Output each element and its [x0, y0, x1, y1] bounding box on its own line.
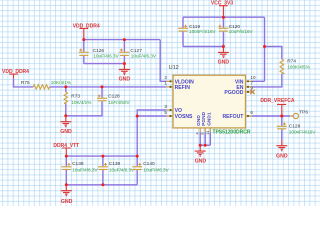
pin 7 EN stub — [246, 86, 253, 88]
wire C119 top lead — [182, 17, 184, 28]
svg-text:10uF/4/6.3V: 10uF/4/6.3V — [131, 54, 157, 59]
wire R75 to REFIN pin 1 — [50, 86, 167, 88]
svg-text:REFOUT: REFOUT — [222, 114, 244, 120]
pin 11 GND1 stub — [209, 128, 211, 132]
svg-text:100nF/4/16V: 100nF/4/16V — [189, 29, 216, 34]
wire bottom pins rail to GND — [200, 144, 210, 146]
svg-text:PGND: PGND — [201, 111, 207, 125]
ground port (C129) — [276, 140, 288, 160]
svg-text:GND1: GND1 — [206, 112, 212, 126]
ground port (C126/C127) — [119, 64, 131, 83]
wire C120 top lead — [222, 17, 224, 28]
wire C138 top lead — [65, 156, 67, 166]
no-connect X on pin 9 PGOOD — [250, 90, 254, 94]
wire PGND pin 8 down — [204, 132, 206, 145]
svg-text:REFIN: REFIN — [175, 85, 191, 91]
node bottom pins / GND — [199, 144, 202, 147]
svg-text:VOSNS: VOSNS — [175, 114, 193, 120]
ground port (U12 bottom pins) — [195, 145, 207, 164]
node VDD_DDR4 / C126 — [82, 38, 85, 41]
svg-text:GND: GND — [218, 59, 230, 65]
svg-text:9: 9 — [250, 86, 253, 91]
pin 3 VO stub — [166, 109, 173, 111]
capacitor C119 — [178, 24, 216, 34]
wire REFOUT pin 6 to TP6 — [252, 115, 290, 117]
svg-text:10K/4/1%: 10K/4/1% — [71, 100, 91, 105]
wire GND pin 4 down — [199, 132, 201, 145]
node VTT rail / C138 — [65, 155, 68, 158]
wire VO/VOSNS down to VTT rail — [136, 116, 138, 156]
pin 4 GND stub — [199, 128, 201, 132]
capacitor C129 — [277, 123, 316, 135]
power port VCC_3V3 — [211, 1, 233, 18]
pin end dots — [169, 80, 249, 117]
svg-text:U12: U12 — [169, 65, 179, 71]
wire VO pin 3 elbow down — [137, 110, 166, 116]
capacitor C126 — [79, 48, 120, 59]
wire C128 bottom lead elbow to GND node — [66, 102, 102, 116]
resistor R74 — [280, 58, 310, 73]
node C120 bottom / GND — [222, 45, 225, 48]
ground port (R73/C128) — [60, 116, 72, 135]
U12 pin numbers — [164, 75, 256, 135]
wire rail elbow to VLDOIN pin 2 — [160, 40, 166, 82]
svg-text:1: 1 — [164, 81, 167, 86]
node VTT rail / C139 — [101, 155, 104, 158]
svg-text:DDR4_VTT: DDR4_VTT — [53, 143, 79, 149]
wire VCC_3V3 top rail — [183, 16, 265, 18]
pin 9 PGOOD stub — [246, 91, 253, 93]
node REFOUT / DDR_VREFCA / C129 — [280, 115, 283, 118]
capacitor C120 — [218, 24, 253, 34]
capacitor C127 — [119, 48, 157, 59]
svg-text:100nF/4/16V: 100nF/4/16V — [289, 129, 316, 134]
svg-text:GND: GND — [61, 199, 73, 205]
svg-text:C128: C128 — [108, 93, 120, 99]
svg-text:R75: R75 — [21, 80, 30, 86]
svg-text:PGOOD: PGOOD — [224, 90, 243, 96]
wire GND1 pin 11 down — [209, 132, 211, 145]
node VTT bottom rail / C139 — [101, 183, 104, 186]
node REFIN rail / R73 — [64, 85, 67, 88]
svg-text:10K/4/1%: 10K/4/1% — [51, 80, 71, 85]
pin 5 VOSNS stub — [166, 115, 173, 117]
capacitor C138 — [61, 161, 98, 173]
pin 10 VIN stub — [246, 80, 253, 82]
wire C129 bottom lead to GND — [281, 129, 283, 140]
pin 1 REFIN stub — [166, 86, 173, 88]
wire C139 top lead — [102, 156, 104, 166]
wire C129 top lead — [281, 116, 283, 126]
wire DDR4_VTT top rail — [66, 155, 137, 157]
op-amp U12 TPS51200DRCR body — [173, 75, 246, 128]
svg-text:VCC_3V3: VCC_3V3 — [211, 1, 233, 7]
power port VDD_DDR4 (left) — [2, 69, 29, 78]
svg-text:R73: R73 — [71, 93, 80, 99]
svg-text:1nF/4/50V: 1nF/4/50V — [108, 100, 130, 105]
svg-text:GND: GND — [119, 77, 131, 83]
power port DDR4_VTT — [53, 143, 79, 156]
wire C127 bottom lead — [123, 56, 125, 64]
svg-text:GND: GND — [276, 153, 288, 159]
svg-text:10uF/4/6.3V: 10uF/4/6.3V — [143, 168, 169, 173]
resistor R73 — [64, 92, 91, 105]
wire C119 bottom lead — [182, 32, 184, 47]
wire VDD_DDR4 top rail — [84, 39, 160, 41]
wire VIN pin to rail — [252, 80, 265, 82]
svg-text:3: 3 — [164, 104, 167, 109]
wire C126 top lead — [83, 40, 85, 52]
svg-text:10uF/4/6.3V: 10uF/4/6.3V — [109, 168, 135, 173]
node VTT bottom rail / GND — [65, 183, 68, 186]
wire C127 top lead — [123, 40, 125, 52]
svg-text:100K/4/5%: 100K/4/5% — [287, 64, 310, 69]
capacitor C139 — [98, 161, 135, 173]
svg-text:10uF/6/16V: 10uF/6/16V — [229, 29, 254, 34]
node R73 bottom / GND — [64, 114, 67, 117]
node VO/VOSNS junction — [136, 115, 139, 118]
svg-text:10: 10 — [250, 75, 256, 80]
wire C138 bottom lead — [65, 170, 67, 185]
wire branch 3V3 to R74 top — [265, 47, 282, 60]
node rail / C127 — [123, 38, 126, 41]
svg-text:VDD_DDR4: VDD_DDR4 — [73, 23, 100, 29]
pin 6 REFOUT stub — [246, 115, 253, 117]
wire VOSNS pin 5 — [137, 115, 166, 117]
wire VCC_3V3 right vertical to VIN — [264, 17, 266, 81]
svg-text:GND: GND — [195, 159, 207, 165]
svg-text:6: 6 — [250, 110, 253, 115]
wire C139 bottom lead — [102, 170, 104, 185]
wire R74 bottom to EN pin — [252, 74, 282, 87]
node REFIN rail / C128 — [101, 85, 104, 88]
node C127 bottom / GND — [123, 62, 126, 65]
capacitor C128 — [97, 93, 130, 105]
capacitor C140 — [132, 161, 169, 173]
ground port (VTT caps) — [61, 185, 73, 205]
node VCC_3V3 / C120 top — [222, 16, 225, 19]
wire C120 bottom lead — [222, 32, 224, 47]
node VTT rail / C140 — [136, 155, 139, 158]
svg-text:TP6: TP6 — [299, 110, 308, 116]
wire VTT caps bottom rail to GND — [66, 184, 137, 186]
svg-text:GND: GND — [60, 129, 72, 135]
pin 8 PGND stub — [204, 128, 206, 132]
wire C128 top lead — [101, 87, 103, 98]
resistor R75 — [21, 80, 71, 89]
svg-text:10uF/4/6.3V: 10uF/4/6.3V — [93, 54, 119, 59]
svg-text:2: 2 — [164, 75, 167, 80]
wire C140 bottom lead — [136, 170, 138, 185]
pin 2 VLDOIN stub — [166, 80, 173, 82]
wire R73 top lead — [65, 87, 67, 92]
svg-text:C139: C139 — [109, 161, 121, 167]
wire 3V3 caps bottom rail to GND — [183, 46, 223, 48]
U12 pin names — [175, 79, 245, 126]
wire R73 bottom lead to GND node — [65, 103, 67, 116]
svg-text:5: 5 — [164, 110, 167, 115]
ground port (3V3 caps) — [218, 47, 230, 66]
svg-text:C140: C140 — [143, 161, 155, 167]
svg-text:10uF/4/6.3V: 10uF/4/6.3V — [72, 168, 98, 173]
wire C126 bottom lead — [83, 56, 85, 64]
node bottom pins / PGND — [204, 144, 207, 147]
wire C126/C127 bottom rail to GND — [84, 63, 125, 65]
wire VDD_DDR4 left port down to REFIN rail — [14, 78, 34, 87]
wire C140 top lead — [136, 156, 138, 166]
test point TP6 — [290, 110, 308, 119]
power port DDR_VREFCA — [260, 98, 295, 116]
svg-text:DDR_VREFCA: DDR_VREFCA — [260, 98, 295, 104]
svg-text:TPS51200DRCR: TPS51200DRCR — [212, 130, 250, 136]
svg-text:VDD_DDR4: VDD_DDR4 — [2, 69, 29, 75]
U12 pin stubs — [166, 81, 252, 132]
power port VDD_DDR4 (top) — [73, 23, 100, 39]
node 3V3 rail / R74 branch — [263, 45, 266, 48]
svg-text:C138: C138 — [72, 161, 84, 167]
